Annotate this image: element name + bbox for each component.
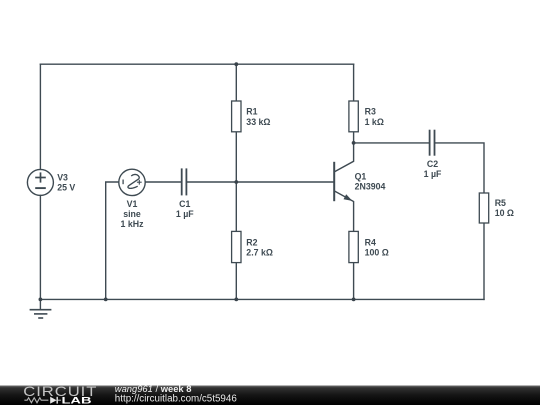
- wire R4 bottom stub: [353, 263, 355, 300]
- R5 label: [495, 198, 514, 218]
- svg-text:100 Ω: 100 Ω: [365, 248, 389, 258]
- wire R1 top stub: [235, 64, 237, 101]
- voltage source V1 (sine): [119, 169, 145, 195]
- svg-text:Q1: Q1: [355, 171, 367, 181]
- wire C2 to R5 branch: [435, 143, 484, 193]
- wire V1 left to bottom rail: [106, 182, 119, 299]
- R3 label: [365, 106, 384, 127]
- svg-text:1 µF: 1 µF: [424, 169, 442, 179]
- svg-text:R4: R4: [365, 237, 376, 247]
- node dot base node: [234, 180, 238, 184]
- C1 label: [176, 199, 194, 219]
- svg-text:2N3904: 2N3904: [355, 182, 386, 192]
- C2 label: [424, 159, 442, 179]
- capacitor C1: [182, 168, 187, 195]
- wire R2 bottom stub: [235, 263, 237, 300]
- capacitor C2: [430, 130, 435, 156]
- svg-text:wang961 / week 8: wang961 / week 8: [115, 383, 192, 394]
- wire R1 bottom stub: [235, 132, 237, 182]
- wire R3 bottom stub: [353, 132, 355, 143]
- svg-text:R3: R3: [365, 106, 376, 116]
- wire V3 to top rail: [39, 64, 41, 169]
- svg-text:R5: R5: [495, 198, 506, 208]
- svg-text:R1: R1: [246, 106, 257, 116]
- svg-text:LAB: LAB: [62, 396, 92, 405]
- V1 label: [121, 199, 145, 229]
- wire C1 to node B: [187, 181, 236, 183]
- node dot collector / R3 / C2: [352, 141, 356, 145]
- resistor R2: [232, 231, 241, 262]
- svg-text:10 Ω: 10 Ω: [495, 208, 514, 218]
- R2 label: [246, 237, 273, 257]
- wire V3 to bottom rail: [39, 195, 41, 299]
- resistor R3: [349, 101, 358, 132]
- svg-text:1 kHz: 1 kHz: [121, 219, 145, 229]
- R1 label: [246, 106, 270, 127]
- svg-text:C2: C2: [427, 159, 438, 169]
- node dot V1 bottom: [104, 298, 108, 302]
- resistor R5: [479, 193, 488, 223]
- transistor Q1: [334, 162, 352, 201]
- wire R3 top stub: [353, 64, 355, 101]
- R4 label: [365, 237, 389, 257]
- wire top rail: [40, 63, 353, 65]
- wire R2 top stub: [235, 182, 237, 231]
- svg-text:sine: sine: [123, 209, 141, 219]
- wire V1 to C1: [145, 181, 181, 183]
- svg-text:V1: V1: [127, 199, 138, 209]
- node dot top rail / R1: [234, 62, 238, 66]
- svg-text:1 kΩ: 1 kΩ: [365, 117, 384, 127]
- svg-text:1 µF: 1 µF: [176, 209, 194, 219]
- wire emitter of Q1: [335, 191, 354, 231]
- svg-text:2.7 kΩ: 2.7 kΩ: [246, 248, 273, 258]
- resistor R1: [232, 101, 241, 132]
- node dot R4 bottom: [352, 298, 356, 302]
- V3 label: [57, 173, 75, 193]
- wire bottom rail: [40, 298, 484, 300]
- ground: [30, 299, 52, 318]
- resistor R4: [349, 231, 358, 262]
- wire R5 bottom stub: [483, 223, 485, 299]
- Q1 label: [355, 171, 386, 191]
- wire collector of Q1: [335, 143, 354, 172]
- svg-text:R2: R2: [246, 237, 257, 247]
- CircuitLab logo resistor zigzag: [24, 398, 48, 403]
- svg-text:V3: V3: [57, 173, 68, 183]
- voltage source V3: [27, 169, 53, 195]
- svg-text:33 kΩ: 33 kΩ: [246, 117, 270, 127]
- CircuitLab logo diode: [50, 397, 61, 404]
- svg-text:25 V: 25 V: [57, 183, 75, 193]
- svg-text:C1: C1: [179, 199, 190, 209]
- node dot ground junction: [39, 298, 43, 302]
- wire base of Q1: [236, 181, 334, 183]
- wire node C to C2: [354, 142, 429, 144]
- footer bar: [0, 386, 540, 405]
- node dot R2 bottom: [234, 298, 238, 302]
- svg-text:http://circuitlab.com/c5t5946: http://circuitlab.com/c5t5946: [115, 393, 238, 404]
